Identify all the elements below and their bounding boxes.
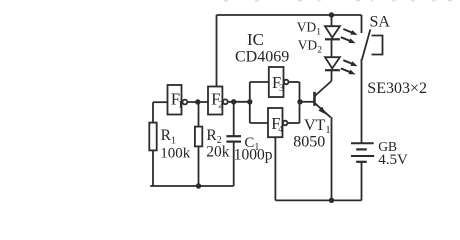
inverter F1 — [168, 85, 188, 115]
node top rail junction — [329, 12, 334, 17]
svg-text:F4: F4 — [271, 114, 283, 135]
switch SA — [362, 15, 383, 60]
node base junction — [297, 99, 302, 104]
wire VD2 to collector — [331, 70, 333, 81]
node R2 feedback junction — [196, 183, 201, 188]
battery GB — [351, 143, 374, 200]
svg-text:4.5V: 4.5V — [378, 152, 408, 168]
wire F2 output — [228, 101, 250, 103]
wire F1 to F2 — [187, 101, 208, 103]
svg-text:VD2: VD2 — [298, 37, 323, 55]
wire top rail — [217, 14, 362, 16]
resistor R1 — [149, 102, 156, 186]
svg-text:R1: R1 — [161, 127, 176, 146]
inverter F4 — [268, 108, 288, 137]
node F1 output junction — [195, 99, 200, 104]
node emitter-ground junction — [329, 198, 334, 203]
capacitor C1 — [226, 102, 241, 186]
node input stair junction — [247, 99, 252, 104]
wire VD1 to VD2 — [331, 39, 333, 57]
wire switch to battery — [361, 59, 363, 143]
svg-text:SE303×2: SE303×2 — [367, 80, 427, 97]
wire LED branch drop — [331, 15, 333, 26]
wire base — [300, 101, 315, 103]
wire output bus F3 F4 — [299, 82, 301, 123]
svg-text:F3: F3 — [272, 73, 284, 94]
wire F2 VDD drop — [216, 15, 218, 87]
svg-text:CD4069: CD4069 — [235, 49, 289, 66]
svg-text:1000p: 1000p — [234, 147, 273, 164]
wire feedback rail — [150, 185, 234, 187]
wire F4 output — [288, 122, 300, 124]
svg-text:20k: 20k — [206, 143, 230, 160]
svg-text:VD1: VD1 — [297, 19, 322, 37]
svg-text:100k: 100k — [160, 145, 191, 161]
inverter F2 — [208, 87, 228, 115]
wire F1 input — [153, 101, 168, 103]
node C1 tap junction — [231, 99, 236, 104]
wire emitter drop — [331, 117, 333, 200]
svg-text:IC: IC — [247, 30, 264, 49]
inverter F3 — [269, 67, 289, 97]
resistor R2 — [195, 102, 202, 186]
wire F4 VSS drop — [274, 137, 276, 200]
svg-text:F2: F2 — [211, 89, 223, 110]
wire input stair to F3 F4 — [250, 82, 269, 123]
svg-text:8050: 8050 — [293, 134, 325, 151]
wire F3 output — [289, 81, 300, 83]
wire bottom ground rail — [275, 199, 361, 201]
transistor VT1 — [315, 81, 332, 117]
LED VD1 — [325, 26, 358, 43]
LED VD2 — [325, 57, 358, 74]
svg-text:SA: SA — [370, 14, 391, 31]
scan specks top edge — [224, 0, 452, 2]
